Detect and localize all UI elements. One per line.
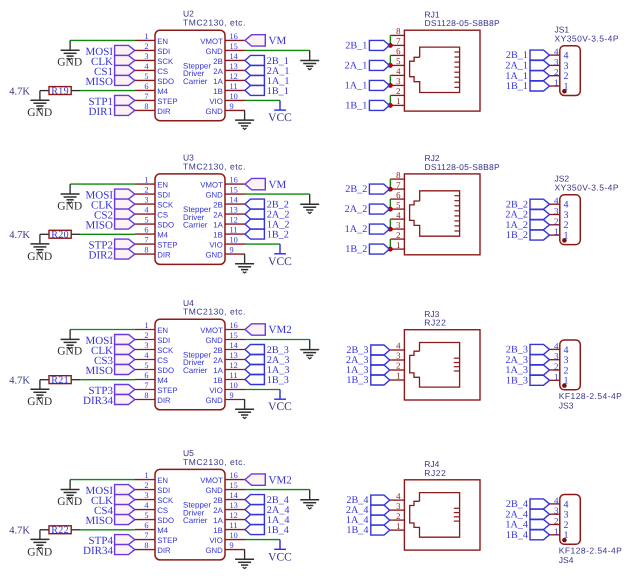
pin 4 <box>550 47 569 62</box>
hierarchical label CS3 <box>94 355 135 368</box>
svg-text:DIR34: DIR34 <box>83 395 113 407</box>
wire pin pair <box>389 75 391 85</box>
hierarchical label DIR34 <box>83 395 135 408</box>
junction <box>388 247 393 252</box>
svg-text:4: 4 <box>554 47 559 57</box>
global label 1B_3 <box>506 375 550 386</box>
svg-text:6: 6 <box>144 226 148 235</box>
polarity dot <box>562 383 567 388</box>
svg-text:15: 15 <box>230 42 238 51</box>
value KF128-2.54-4P <box>559 546 623 556</box>
svg-text:CS: CS <box>157 211 168 220</box>
svg-text:12: 12 <box>230 361 238 370</box>
pin 7 STEP <box>135 92 178 106</box>
connector JS3 <box>550 340 623 411</box>
wire EN (pin1 U4) to GND <box>70 329 135 331</box>
svg-text:VM2: VM2 <box>269 474 292 486</box>
svg-text:STEP: STEP <box>157 386 177 395</box>
svg-text:M4: M4 <box>157 376 168 385</box>
svg-text:4.7K: 4.7K <box>9 526 30 537</box>
svg-text:1B_1: 1B_1 <box>267 86 289 97</box>
svg-text:1B_4: 1B_4 <box>506 530 528 541</box>
wire resistor to M4 (pin6) <box>80 529 135 531</box>
pin 13 2A <box>213 62 245 76</box>
svg-text:1B: 1B <box>213 376 223 385</box>
global label 2A_2 <box>245 209 289 221</box>
svg-text:10: 10 <box>230 236 238 245</box>
svg-text:CS: CS <box>157 356 168 365</box>
value DS1128-05-S8B8P <box>425 18 500 28</box>
svg-text:4: 4 <box>396 491 401 501</box>
pin 5 SDO <box>135 216 174 230</box>
pin 16 VMOT <box>200 321 245 335</box>
ground <box>300 490 319 509</box>
ground <box>57 40 82 68</box>
svg-text:EN: EN <box>157 181 168 190</box>
wire resistor to GND <box>39 380 41 390</box>
svg-text:13: 13 <box>230 501 238 510</box>
ref U5 <box>183 448 194 458</box>
body <box>155 174 225 265</box>
polarity dot <box>562 89 567 94</box>
hierarchical label VM2 <box>245 474 292 486</box>
connector JS1 <box>550 24 619 95</box>
global label 2A_1 <box>245 65 289 77</box>
svg-text:2B: 2B <box>213 496 223 505</box>
svg-text:8: 8 <box>144 102 148 111</box>
wire resistor to GND <box>39 530 41 540</box>
connector RJ4 <box>390 459 480 550</box>
pin 13 2A <box>213 501 245 515</box>
pin 1 EN <box>135 32 168 46</box>
hierarchical label DIR2 <box>89 249 135 262</box>
wire GND (pin15) <box>245 193 310 195</box>
pin 5 <box>390 56 404 66</box>
global label 2B_3 <box>506 344 550 355</box>
value XY350V-3.5-4P <box>555 34 619 44</box>
global label 2A_3 <box>505 355 549 366</box>
pin 8 DIR <box>135 541 171 555</box>
svg-text:4: 4 <box>144 206 149 215</box>
hierarchical label VM <box>245 178 286 190</box>
svg-text:MISO: MISO <box>85 220 113 232</box>
svg-text:1: 1 <box>554 78 559 88</box>
ground <box>27 100 52 119</box>
svg-text:TMC2130, etc.: TMC2130, etc. <box>183 18 246 28</box>
global label 1A_3 <box>346 365 390 376</box>
svg-text:SDO: SDO <box>157 516 174 525</box>
svg-text:7: 7 <box>144 531 148 540</box>
svg-text:11: 11 <box>230 371 238 380</box>
value 4.7K <box>9 375 30 386</box>
body <box>155 30 225 121</box>
pin 7 <box>390 180 404 190</box>
hierarchical label CS2 <box>94 209 135 222</box>
svg-text:SCK: SCK <box>157 201 174 210</box>
ref U4 <box>183 298 194 308</box>
body <box>404 30 480 111</box>
svg-text:2A_1: 2A_1 <box>345 61 368 72</box>
pin 5 SDO <box>135 72 174 86</box>
pin 1 <box>390 371 405 381</box>
svg-text:Carrier: Carrier <box>183 77 208 86</box>
svg-text:2: 2 <box>144 481 148 490</box>
pin 1 <box>390 521 405 531</box>
svg-text:3: 3 <box>396 220 401 230</box>
svg-text:2: 2 <box>144 42 148 51</box>
body <box>155 469 225 560</box>
wire pin pair <box>389 179 391 189</box>
value 4.7K <box>9 86 30 97</box>
svg-text:2A: 2A <box>213 211 223 220</box>
svg-text:2: 2 <box>396 511 400 521</box>
hierarchical label CLK <box>91 345 135 358</box>
svg-text:12: 12 <box>230 72 238 81</box>
pin 9 GND <box>205 541 245 555</box>
value TMC2130, etc. <box>183 18 246 28</box>
svg-text:VM: VM <box>269 35 287 47</box>
ref U3 <box>183 152 194 162</box>
wire resistor to M4 (pin6) <box>80 233 135 235</box>
svg-text:1A: 1A <box>213 221 223 230</box>
pin 5 <box>390 200 404 210</box>
global label 2A_4 <box>346 505 390 516</box>
svg-text:Carrier: Carrier <box>183 516 208 525</box>
svg-text:14: 14 <box>230 491 239 500</box>
pin 15 GND <box>205 481 245 495</box>
pin 12 1A <box>213 361 245 375</box>
global label 2A_4 <box>245 505 289 517</box>
ref U2 <box>183 9 194 19</box>
svg-text:1: 1 <box>144 176 148 185</box>
pin 4 CS <box>135 62 168 76</box>
svg-text:5: 5 <box>144 511 148 520</box>
pin 8 DIR <box>135 246 171 260</box>
wire GND (pin15) <box>245 339 310 341</box>
svg-text:1B: 1B <box>213 526 223 535</box>
svg-text:6: 6 <box>144 521 148 530</box>
svg-text:15: 15 <box>230 481 238 490</box>
svg-text:5: 5 <box>396 200 401 210</box>
global label 2A_2 <box>505 210 549 221</box>
pin 2 <box>550 216 569 231</box>
pin 2 SDI <box>135 331 170 345</box>
pin 2 <box>550 67 569 82</box>
pin 3 <box>390 220 404 230</box>
pin 15 GND <box>205 331 245 345</box>
svg-text:CS: CS <box>157 67 168 76</box>
svg-text:VIO: VIO <box>209 241 222 250</box>
pin 6 M4 <box>135 521 169 535</box>
hierarchical label CLK <box>91 55 135 68</box>
ref JS2 <box>555 174 570 184</box>
body <box>155 319 225 410</box>
polarity dot <box>562 538 567 543</box>
hierarchical label MISO <box>85 515 134 528</box>
wire pin pair <box>389 239 391 249</box>
svg-text:3: 3 <box>396 76 401 86</box>
pin 4 CS <box>135 501 168 515</box>
svg-text:VM2: VM2 <box>269 324 292 336</box>
svg-text:11: 11 <box>230 226 238 235</box>
hierarchical label MISO <box>85 75 134 88</box>
wire EN (pin1 U2) to GND <box>70 39 135 41</box>
hierarchical label CLK <box>91 495 135 508</box>
svg-text:16: 16 <box>230 471 238 480</box>
pin 7 STEP <box>135 236 178 250</box>
svg-text:JS4: JS4 <box>559 555 574 565</box>
pin 2 <box>390 86 404 96</box>
wire resistor to GND <box>39 234 41 244</box>
svg-text:R21: R21 <box>51 375 69 386</box>
svg-text:10: 10 <box>230 531 238 540</box>
svg-text:1: 1 <box>144 471 148 480</box>
junction <box>388 207 393 212</box>
ref RJ1 <box>425 9 440 19</box>
svg-text:5: 5 <box>144 216 148 225</box>
pin 6 <box>390 46 404 56</box>
svg-text:SCK: SCK <box>157 346 174 355</box>
pin 9 GND <box>205 246 245 260</box>
wire VIO (pin10) to VCC <box>245 389 280 391</box>
wire VIO (pin10) to VCC <box>245 539 280 541</box>
wire pin pair <box>389 35 391 45</box>
resistor R20 <box>40 230 80 241</box>
pin 12 1A <box>213 216 245 230</box>
pin 5 SDO <box>135 511 174 525</box>
svg-text:10: 10 <box>230 92 238 101</box>
ground <box>300 50 319 69</box>
svg-text:VMOT: VMOT <box>200 181 223 190</box>
pin 1 EN <box>135 321 168 335</box>
svg-text:1: 1 <box>144 32 148 41</box>
pin 2 SDI <box>135 42 170 56</box>
svg-text:DIR34: DIR34 <box>83 545 113 557</box>
svg-text:GND: GND <box>205 251 223 260</box>
svg-text:1B_4: 1B_4 <box>267 525 289 536</box>
svg-text:13: 13 <box>230 351 238 360</box>
ground <box>235 110 254 129</box>
svg-text:5: 5 <box>144 361 148 370</box>
svg-text:2A_2: 2A_2 <box>345 204 368 215</box>
svg-text:1: 1 <box>396 240 400 250</box>
global label 2B_1 <box>506 50 550 61</box>
svg-text:VIO: VIO <box>209 386 222 395</box>
hierarchical label DIR34 <box>83 545 135 558</box>
global label 2A_2 <box>345 204 390 215</box>
wire pin pair <box>389 55 391 65</box>
svg-text:1A_1: 1A_1 <box>345 81 368 92</box>
svg-text:8: 8 <box>144 246 148 255</box>
svg-text:TMC2130, etc.: TMC2130, etc. <box>183 161 246 171</box>
svg-text:2A: 2A <box>213 67 223 76</box>
pin 4 <box>390 66 404 76</box>
junction <box>388 63 393 68</box>
svg-text:4: 4 <box>144 62 149 71</box>
ref RJ2 <box>425 153 440 163</box>
ground <box>27 389 52 408</box>
svg-text:13: 13 <box>230 206 238 215</box>
hierarchical label MOSI <box>85 189 134 202</box>
svg-text:6: 6 <box>144 371 148 380</box>
junction <box>388 43 393 48</box>
pin 16 VMOT <box>200 471 245 485</box>
global label 2B_4 <box>245 495 289 507</box>
svg-text:MISO: MISO <box>85 515 113 527</box>
svg-text:3: 3 <box>554 206 559 216</box>
svg-text:1: 1 <box>554 526 559 536</box>
svg-text:16: 16 <box>230 176 238 185</box>
ground <box>27 244 52 263</box>
global label 2A_1 <box>505 60 549 71</box>
svg-text:2A: 2A <box>213 356 223 365</box>
connector RJ3 <box>390 309 480 400</box>
svg-text:2: 2 <box>144 331 148 340</box>
pin 5 SDO <box>135 361 174 375</box>
svg-text:2B: 2B <box>213 57 223 66</box>
svg-text:EN: EN <box>157 476 168 485</box>
svg-text:DIR2: DIR2 <box>89 250 113 262</box>
svg-text:CS: CS <box>157 506 168 515</box>
svg-text:EN: EN <box>157 326 168 335</box>
ref RJ4 <box>424 459 439 469</box>
pin 9 GND <box>205 391 245 405</box>
pin 8 <box>390 170 404 180</box>
body <box>560 46 581 96</box>
body <box>560 340 581 390</box>
svg-text:JS3: JS3 <box>559 401 574 411</box>
svg-text:3: 3 <box>144 491 148 500</box>
value RJ22 <box>424 318 446 328</box>
hierarchical label MISO <box>85 365 134 378</box>
ground <box>300 340 319 359</box>
pin 16 VMOT <box>200 176 245 190</box>
pin 3 SCK <box>135 491 174 505</box>
svg-text:8: 8 <box>396 26 401 36</box>
pin 4 <box>390 210 404 220</box>
pin 7 STEP <box>135 381 178 395</box>
svg-text:2: 2 <box>554 362 559 372</box>
value DS1128-05-S8B8P <box>425 162 500 172</box>
global label 1B_1 <box>506 81 550 92</box>
svg-text:VM: VM <box>269 179 287 191</box>
svg-text:SDI: SDI <box>157 486 170 495</box>
stepper driver U4 TMC2130 <box>135 298 246 410</box>
svg-text:9: 9 <box>230 541 234 550</box>
svg-text:9: 9 <box>230 246 234 255</box>
global label 1A_3 <box>245 365 289 377</box>
pin 1 <box>390 240 404 250</box>
svg-text:3: 3 <box>554 351 559 361</box>
global label 1B_4 <box>506 530 550 541</box>
pin 3 <box>550 57 569 72</box>
global label 2B_2 <box>506 199 550 210</box>
svg-text:14: 14 <box>230 196 239 205</box>
svg-text:14: 14 <box>230 341 239 350</box>
global label 2B_2 <box>345 184 389 195</box>
svg-text:2: 2 <box>554 516 559 526</box>
svg-text:7: 7 <box>396 180 401 190</box>
resistor R21 <box>40 375 80 386</box>
pin 6 M4 <box>135 226 169 240</box>
svg-text:STEP: STEP <box>157 241 177 250</box>
svg-text:3: 3 <box>554 57 559 67</box>
svg-text:1B_2: 1B_2 <box>267 230 289 241</box>
pin 3 <box>550 351 569 366</box>
svg-text:TMC2130, etc.: TMC2130, etc. <box>183 307 246 317</box>
svg-text:DS1128-05-S8B8P: DS1128-05-S8B8P <box>425 162 500 172</box>
svg-text:GND: GND <box>57 200 82 212</box>
svg-text:R22: R22 <box>51 525 69 536</box>
pin 4 <box>550 196 569 211</box>
resistor R22 <box>40 525 80 536</box>
svg-text:2: 2 <box>144 186 148 195</box>
ground <box>57 330 82 358</box>
svg-text:DIR1: DIR1 <box>89 106 113 118</box>
svg-text:DS1128-05-S8B8P: DS1128-05-S8B8P <box>425 18 500 28</box>
global label 1B_2 <box>345 244 389 255</box>
svg-text:12: 12 <box>230 216 238 225</box>
pin 1 <box>550 526 569 541</box>
svg-text:R19: R19 <box>51 86 69 97</box>
svg-text:VCC: VCC <box>268 256 292 268</box>
pin 14 2B <box>213 196 245 210</box>
pin 10 VIO <box>209 92 245 106</box>
svg-text:6: 6 <box>396 46 401 56</box>
pin 16 VMOT <box>200 32 245 46</box>
svg-text:RJ22: RJ22 <box>424 318 446 328</box>
svg-text:VIO: VIO <box>209 536 222 545</box>
value RJ22 <box>424 468 446 478</box>
svg-text:7: 7 <box>144 92 148 101</box>
pin 10 VIO <box>209 531 245 545</box>
ground <box>235 550 254 569</box>
svg-text:2: 2 <box>396 86 400 96</box>
global label 1A_4 <box>505 520 549 531</box>
pin 4 <box>550 495 569 510</box>
global label 2B_3 <box>245 345 289 357</box>
global label 2B_4 <box>346 495 389 506</box>
global label 2A_1 <box>345 60 390 71</box>
svg-text:1A_2: 1A_2 <box>345 224 368 235</box>
svg-text:4: 4 <box>396 210 401 220</box>
pin 3 <box>390 76 404 86</box>
wire pin pair <box>389 95 391 105</box>
stepper driver U2 TMC2130 <box>135 9 246 121</box>
pin 3 <box>390 351 405 361</box>
svg-text:VCC: VCC <box>268 551 292 563</box>
svg-text:VMOT: VMOT <box>200 37 223 46</box>
svg-text:Carrier: Carrier <box>183 221 208 230</box>
pin 1 <box>550 78 569 93</box>
svg-text:8: 8 <box>144 391 148 400</box>
svg-text:SCK: SCK <box>157 496 174 505</box>
svg-text:XY350V-3.5-4P: XY350V-3.5-4P <box>555 183 619 193</box>
hierarchical label VM <box>245 35 286 47</box>
svg-text:RJ22: RJ22 <box>424 468 446 478</box>
value TMC2130, etc. <box>183 307 246 317</box>
svg-text:GND: GND <box>205 486 223 495</box>
hierarchical label STP1 <box>89 95 135 108</box>
svg-text:R20: R20 <box>51 230 69 241</box>
pin 6 M4 <box>135 82 169 96</box>
polarity dot <box>562 238 567 243</box>
svg-text:10: 10 <box>230 381 238 390</box>
pin 11 1B <box>213 521 245 535</box>
svg-text:2: 2 <box>396 361 400 371</box>
svg-text:1A: 1A <box>213 516 223 525</box>
pin 3 SCK <box>135 196 174 210</box>
